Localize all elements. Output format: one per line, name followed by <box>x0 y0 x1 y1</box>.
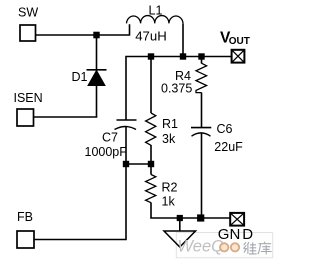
inductor L1 <box>127 16 184 24</box>
wire FB node horizontal <box>126 163 151 165</box>
wire ground lead <box>179 218 181 231</box>
terminal VOUT <box>232 50 245 63</box>
ground <box>164 231 196 247</box>
svg-text:SW: SW <box>18 5 38 19</box>
svg-text:L1: L1 <box>149 3 163 17</box>
node rail/R1 <box>148 53 154 59</box>
node FB/C7 <box>123 161 129 167</box>
watermark box <box>176 233 272 258</box>
svg-text:0.375: 0.375 <box>161 81 192 95</box>
svg-text:R2: R2 <box>162 180 178 194</box>
node rail/R4 <box>198 53 204 59</box>
diode D1 <box>87 69 107 71</box>
capacitor C6 <box>191 127 211 129</box>
svg-text:C7: C7 <box>102 130 118 144</box>
svg-text:WeeQ: WeeQ <box>178 237 225 255</box>
resistor R4 <box>201 57 203 64</box>
node gnd/C6 <box>197 214 204 221</box>
wire VOUT rail with C7 top lead <box>126 57 231 121</box>
watermark character 维 <box>244 242 257 254</box>
wire SW to L1 left lead <box>36 24 130 35</box>
svg-text:D1: D1 <box>72 70 88 84</box>
watermark character 库 <box>258 242 272 255</box>
wire ground rail <box>150 217 230 219</box>
svg-text:1k: 1k <box>162 194 176 208</box>
svg-text:ISEN: ISEN <box>14 91 43 105</box>
svg-text:3k: 3k <box>162 132 176 146</box>
wire ISEN to D1 <box>34 116 98 118</box>
wire L1 right lead <box>182 24 184 57</box>
node gnd/ground symbol <box>177 215 183 221</box>
svg-text:FB: FB <box>17 210 33 224</box>
svg-text:22uF: 22uF <box>214 140 243 154</box>
pin FB <box>17 231 34 248</box>
wire D1 vertical <box>96 35 98 117</box>
pin ISEN <box>17 109 34 126</box>
pin SW <box>20 25 36 41</box>
resistor R2 <box>150 164 152 175</box>
svg-text:C6: C6 <box>217 122 233 136</box>
svg-text:47uH: 47uH <box>135 28 167 43</box>
svg-text:OUT: OUT <box>229 36 250 47</box>
capacitor C7 <box>117 119 137 121</box>
node FB/R1/R2 <box>148 161 154 167</box>
terminal GND <box>230 213 244 226</box>
svg-text:1000pF: 1000pF <box>85 145 128 159</box>
node rail/L1 <box>180 53 186 59</box>
wire FB riser and FB horizontal <box>34 164 126 240</box>
svg-text:R1: R1 <box>162 117 178 131</box>
watermark text WeeQoo <box>178 237 240 255</box>
node junction SW/D1 <box>93 32 99 39</box>
resistor R1 <box>150 57 152 114</box>
